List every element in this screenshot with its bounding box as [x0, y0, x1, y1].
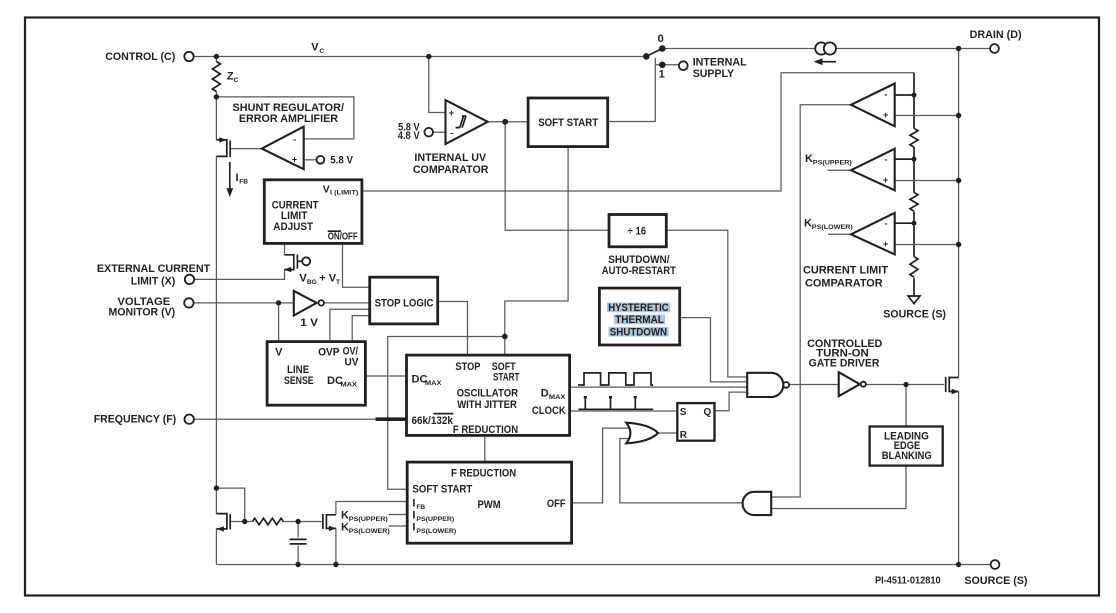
svg-text:I: I [412, 498, 415, 510]
svg-text:K: K [341, 510, 349, 522]
wire comparator2 inputs [895, 158, 914, 160]
wire UV output to soft start [488, 121, 528, 123]
gate driver buffer [839, 372, 866, 396]
wire inverter to stop logic [324, 302, 370, 304]
svg-text:I: I [412, 510, 415, 522]
wire shunt box outline [216, 97, 354, 139]
svg-text:+: + [883, 110, 888, 120]
svg-text:ERROR AMPLIFIER: ERROR AMPLIFIER [239, 113, 338, 125]
svg-text:PS(UPPER): PS(UPPER) [349, 516, 388, 523]
wire current limit adjust to stop logic [343, 243, 370, 287]
junction VC at ZC [214, 54, 219, 59]
svg-text:F REDUCTION: F REDUCTION [453, 424, 518, 436]
svg-text:SHUTDOWN: SHUTDOWN [610, 326, 667, 338]
wire switch top to drain [662, 48, 990, 50]
junction drain plus 3 [956, 242, 961, 247]
svg-text:BLANKING: BLANKING [882, 450, 932, 462]
switch lever [643, 45, 666, 68]
resistor chain R1 [910, 128, 918, 147]
svg-text:I: I [236, 172, 239, 184]
svg-text:COMPARATOR: COMPARATOR [805, 277, 883, 289]
wire control vertical [215, 57, 217, 565]
svg-text:MONITOR (V): MONITOR (V) [109, 306, 176, 318]
wire mosfet2 drain to PWM IFB [336, 502, 407, 515]
svg-text:I (LIMIT): I (LIMIT) [330, 189, 358, 196]
wire frequency thick segment [376, 417, 407, 421]
svg-text:-: - [450, 128, 453, 138]
block SOFT START [528, 98, 608, 147]
svg-text:GATE DRIVER: GATE DRIVER [809, 358, 880, 370]
svg-text:-: - [293, 134, 296, 144]
wire external current limit X [195, 270, 285, 280]
block LINE SENSE [267, 342, 365, 406]
label INTERNAL UV COMPARATOR [413, 152, 489, 176]
svg-text:SOFT START: SOFT START [538, 117, 598, 129]
wire soft start to switch [608, 65, 656, 122]
wire OVP pin to stop logic [330, 309, 370, 341]
junction control mirror top [214, 485, 219, 490]
wire OR output to flipflop R [658, 432, 677, 434]
terminal drain [990, 44, 999, 53]
junction gate drive node [903, 382, 908, 387]
junction rail mosfet2 [333, 562, 338, 567]
wire flipflop Q to NAND [715, 392, 748, 411]
svg-text:START: START [493, 371, 520, 383]
svg-text:STOP: STOP [455, 361, 480, 373]
wire KPS upper stub [827, 169, 850, 171]
wire voltage monitor [194, 302, 293, 304]
svg-text:FREQUENCY (F): FREQUENCY (F) [94, 414, 177, 426]
wire UV comparator minus input [433, 131, 445, 133]
comparator current limit top [851, 84, 895, 127]
junction drain plus 1 [956, 113, 961, 118]
svg-text:PI-4511-012810: PI-4511-012810 [875, 574, 941, 586]
svg-text:COMPARATOR: COMPARATOR [413, 164, 489, 176]
terminal source S [991, 560, 1000, 569]
junction soft start branch [502, 334, 508, 340]
wire thermal shutdown to NAND [680, 318, 748, 382]
wire mirror resistor right [283, 521, 298, 523]
svg-text:V: V [311, 41, 319, 53]
wire drain vertical [958, 49, 960, 565]
resistor chain R3 [910, 257, 918, 278]
wire stop logic to oscillator stop [438, 302, 468, 356]
junction rail capacitor [295, 562, 300, 567]
svg-text:PS(UPPER): PS(UPPER) [416, 516, 454, 523]
svg-text:OSCILLATOR: OSCILLATOR [457, 388, 519, 400]
comparator internal UV [446, 100, 488, 144]
svg-text:SUPPLY: SUPPLY [693, 68, 735, 80]
svg-text:C: C [234, 77, 239, 84]
label KPS lower right [804, 218, 853, 232]
wire capacitor leads [297, 522, 299, 565]
label CONTROLLED TURN-ON GATE DRIVER [807, 338, 882, 370]
wire comparator3 inputs [895, 222, 914, 224]
junction chain mid minus [912, 157, 917, 162]
waveform DMAX square wave [578, 373, 653, 385]
terminal UV threshold [424, 128, 433, 137]
terminal 5.8V reference [317, 156, 325, 164]
comparator KPS upper [851, 149, 895, 191]
svg-text:PS(UPPER): PS(UPPER) [813, 160, 852, 167]
label UV thresholds [398, 121, 420, 142]
wire current limit adjust to onoff mosfet [284, 243, 286, 254]
label KPS upper right [805, 153, 852, 167]
wire VI limit to comparator chain [362, 73, 914, 191]
wire KPS upper label stub [389, 514, 408, 516]
wire OVUV pin to stop logic [352, 316, 370, 342]
label EXTERNAL CURRENT LIMIT X [97, 263, 211, 288]
terminal frequency F [185, 415, 194, 424]
svg-text:Q: Q [704, 407, 712, 418]
label IFB [236, 172, 249, 186]
wire comparator1 output to AND gate [771, 105, 850, 497]
svg-text:F REDUCTION: F REDUCTION [451, 468, 516, 480]
junction ZC bottom [214, 94, 219, 99]
wire divide16 to NAND [666, 230, 747, 377]
svg-text:THERMAL: THERMAL [615, 314, 664, 326]
svg-text:FB: FB [239, 179, 248, 186]
svg-text:K: K [804, 218, 812, 230]
svg-text:+: + [883, 175, 888, 185]
wire source rail [216, 564, 990, 566]
svg-text:I: I [412, 522, 415, 534]
svg-text:+: + [449, 108, 454, 118]
junction mirror resistor left [242, 519, 247, 524]
junction drain node [956, 46, 961, 51]
svg-text:-: - [885, 218, 888, 228]
gate NAND [747, 373, 789, 397]
transistor output mosfet [946, 377, 959, 394]
svg-text:INTERNAL: INTERNAL [693, 56, 747, 68]
current source [814, 42, 837, 65]
svg-text:CURRENT LIMIT: CURRENT LIMIT [803, 265, 888, 277]
block STOP LOGIC [370, 277, 438, 324]
wire soft start down to oscillator [505, 147, 568, 356]
wire gate node to leading edge blanking [905, 385, 907, 427]
resistor ZC [212, 62, 220, 92]
svg-text:D: D [541, 388, 549, 400]
svg-text:MAX: MAX [341, 382, 358, 389]
svg-text:ON/OFF: ON/OFF [328, 232, 358, 243]
svg-text:MAX: MAX [425, 380, 442, 387]
transistor shunt input mosfet [216, 137, 261, 157]
transistor mirror mosfet right [298, 514, 336, 531]
svg-text:SOURCE (S): SOURCE (S) [883, 308, 946, 320]
junction mirror resistor right [295, 519, 300, 524]
junction VC at UV comparator [426, 54, 431, 59]
label SHUTDOWN AUTO-RESTART [602, 254, 676, 277]
wire NAND to gate driver [789, 384, 839, 386]
svg-text:C: C [319, 48, 324, 55]
junction drain plus 2 [956, 178, 961, 183]
wire mirror cell drain branch [216, 488, 252, 521]
gate OR [626, 423, 658, 444]
svg-text:ADJUST: ADJUST [273, 221, 313, 233]
label KPS lower bottom [341, 522, 390, 536]
wire comparator chain vertical [913, 73, 915, 296]
junction rail drain line [956, 562, 961, 567]
junction voltage monitor node [276, 300, 281, 305]
label VBG + VT [299, 272, 340, 286]
label CURRENT LIMIT COMPARATOR [803, 265, 888, 290]
svg-text:5.8 V: 5.8 V [330, 155, 353, 167]
svg-text:OVP: OVP [318, 346, 340, 358]
label VC [311, 41, 324, 55]
wire DMAX to NAND [570, 386, 748, 388]
svg-text:SOFT START: SOFT START [412, 483, 472, 495]
svg-text:R: R [680, 430, 688, 441]
svg-text:V: V [323, 183, 330, 195]
wire internal supply contact [655, 58, 679, 65]
ground arrow source S [908, 296, 920, 304]
terminal control C [184, 52, 193, 61]
wire UV comparator plus input [429, 57, 446, 113]
op-amp error amplifier [262, 127, 317, 170]
block SR flipflop [677, 403, 714, 441]
block HYSTERETIC THERMAL SHUTDOWN [599, 288, 679, 345]
svg-text:OFF: OFF [547, 498, 566, 510]
svg-text:K: K [805, 153, 813, 165]
wire leading edge blanking to AND gate [771, 466, 906, 509]
capacitor mirror [290, 539, 307, 544]
wire mosfet2 source down [335, 528, 337, 564]
resistor mirror [253, 518, 284, 524]
svg-text:HYSTERETIC: HYSTERETIC [608, 302, 669, 314]
svg-text:-: - [885, 90, 888, 100]
wire F reduction oscillator to PWM [484, 435, 486, 462]
label KPS upper bottom [341, 510, 388, 524]
wire AND output to OR gate [620, 439, 742, 503]
svg-text:+: + [883, 239, 888, 249]
block divide by 16 [609, 215, 666, 247]
comparator KPS lower [851, 213, 895, 255]
wire frequency input [194, 418, 406, 420]
svg-text:INTERNAL UV: INTERNAL UV [414, 152, 486, 164]
svg-text:EXTERNAL CURRENT: EXTERNAL CURRENT [97, 263, 211, 275]
wire DCMAX line sense to oscillator [365, 375, 406, 377]
waveform clock pulses [578, 396, 653, 409]
svg-text:AUTO-RESTART: AUTO-RESTART [602, 265, 676, 277]
svg-text:V: V [275, 346, 283, 358]
wire VC control rail [194, 56, 647, 58]
wire soft start branch to PWM [388, 337, 505, 490]
svg-text:WITH JITTER: WITH JITTER [457, 399, 517, 411]
svg-text:MAX: MAX [549, 394, 566, 401]
svg-text:PS(LOWER): PS(LOWER) [416, 528, 456, 535]
svg-text:PS(LOWER): PS(LOWER) [349, 528, 390, 535]
svg-text:CONTROL (C): CONTROL (C) [105, 51, 175, 63]
svg-text:UV: UV [345, 356, 360, 368]
svg-text:1 V: 1 V [300, 317, 319, 329]
resistor chain R2 [910, 192, 918, 211]
svg-text:0: 0 [658, 33, 664, 45]
wire PWM off to OR gate [572, 428, 629, 503]
wire gate driver to mosfet gate [866, 384, 945, 386]
wire KPS lower label stub [389, 525, 408, 527]
inverter 1V [294, 291, 324, 316]
terminal voltage monitor V [184, 298, 193, 307]
block PWM F REDUCTION [407, 462, 571, 543]
label INTERNAL SUPPLY [693, 56, 747, 80]
svg-text:1: 1 [659, 69, 665, 81]
svg-text:SOURCE (S): SOURCE (S) [964, 575, 1027, 587]
svg-text:4.8 V: 4.8 V [398, 130, 420, 142]
svg-text:SENSE: SENSE [284, 375, 314, 387]
wire KPS lower stub [828, 233, 850, 235]
svg-text:PWM: PWM [478, 499, 501, 511]
label VOLTAGE MONITOR V [109, 296, 176, 318]
svg-text:STOP LOGIC: STOP LOGIC [375, 297, 434, 309]
svg-text:DRAIN (D): DRAIN (D) [970, 29, 1022, 41]
svg-text:K: K [341, 522, 349, 534]
svg-text:CLOCK: CLOCK [532, 405, 566, 417]
svg-text:PS(LOWER): PS(LOWER) [812, 224, 853, 231]
junction UV output [502, 119, 508, 125]
terminal external current limit X [185, 275, 194, 284]
svg-text:-: - [885, 154, 888, 164]
svg-text:66k/132k: 66k/132k [412, 415, 454, 427]
wire comparator1 inputs [895, 94, 914, 96]
arrow IFB current [226, 162, 233, 197]
transistor on-off mosfet [284, 255, 310, 273]
wire UV output to divide16 [505, 122, 609, 231]
svg-text:S: S [680, 407, 687, 418]
transistor mirror mosfet left [216, 514, 244, 532]
svg-text:LIMIT (X): LIMIT (X) [131, 276, 176, 288]
gate AND mirrored [743, 492, 772, 515]
junction chain top minus [912, 93, 917, 98]
block CURRENT LIMIT ADJUST [264, 180, 362, 244]
wire V pin line sense [278, 303, 280, 342]
svg-text:BG: BG [307, 279, 317, 286]
svg-text:÷ 16: ÷ 16 [628, 226, 647, 238]
block SHUNT REGULATOR / ERROR AMPLIFIER label [233, 102, 345, 125]
svg-text:T: T [336, 279, 340, 286]
terminal internal supply [679, 61, 688, 70]
label ZC [227, 71, 239, 85]
svg-text:+: + [292, 154, 297, 164]
svg-text:+ V: + V [319, 272, 336, 284]
block OSCILLATOR WITH JITTER [407, 355, 570, 436]
block LEADING EDGE BLANKING [870, 427, 943, 466]
svg-text:FB: FB [416, 504, 425, 511]
junction chain low minus [912, 221, 917, 226]
wire clock to flipflop S [570, 410, 678, 412]
